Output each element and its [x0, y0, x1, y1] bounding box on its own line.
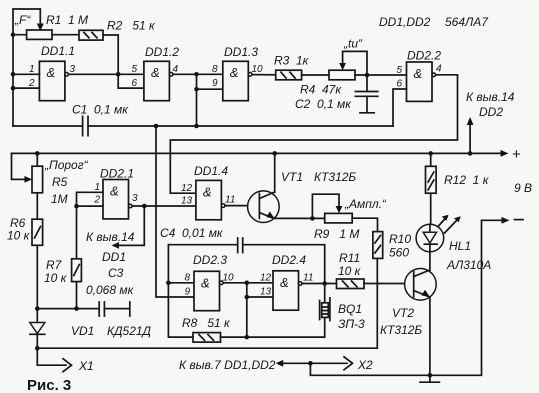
resistor R5 (potentiometer body): [32, 153, 43, 219]
wire DD2.1 inputs tied to R7: [74, 192, 103, 208]
node junction on left bus at pin2: [11, 86, 16, 91]
wire DD1.1 output to DD1.2 pin5: [69, 73, 144, 75]
pin number 11: [225, 195, 235, 206]
svg-text:DD1,DD2: DD1,DD2: [379, 15, 431, 29]
svg-text:&: &: [203, 185, 212, 200]
label tu: [343, 37, 363, 51]
label C2 0,1 mk: [295, 97, 352, 111]
svg-text:1М: 1М: [51, 192, 68, 206]
svg-text:R10: R10: [389, 232, 411, 246]
svg-text:DD1.1: DD1.1: [41, 44, 75, 58]
label +: [512, 146, 521, 163]
connector X2 arrow: [308, 357, 352, 370]
svg-text:9 В: 9 В: [514, 181, 532, 195]
svg-text:К выв.14: К выв.14: [86, 230, 135, 244]
ground bar under C2: [360, 112, 374, 114]
pin number 13: [260, 287, 272, 298]
op-amp gate DD1.2: [144, 61, 173, 100]
label R11 10k: [338, 251, 362, 278]
transistor VT1: [248, 191, 280, 223]
label R10 560: [389, 232, 411, 260]
label 9 V: [514, 181, 532, 195]
svg-text:КТ312Б: КТ312Б: [314, 170, 356, 184]
wire common bottom bus to R10: [35, 258, 377, 350]
wire to pin 14 DD1 arrow: [112, 206, 145, 249]
svg-text:3: 3: [70, 64, 76, 75]
label Ris. 3: [27, 377, 71, 393]
svg-text:4: 4: [173, 64, 179, 75]
svg-text:R5: R5: [52, 175, 68, 189]
wire DD2.2 output down and left to DD1.4 pin12: [170, 75, 457, 193]
svg-text:X2: X2: [357, 358, 373, 372]
svg-text:КТ312Б: КТ312Б: [380, 323, 422, 337]
svg-text:12: 12: [260, 273, 272, 284]
svg-text:&: &: [230, 65, 239, 80]
node junction on left bus at pin1: [11, 72, 16, 77]
svg-text:6: 6: [397, 79, 403, 90]
svg-text:R11: R11: [339, 251, 360, 265]
label R6 10k: [7, 216, 31, 243]
label R4 47k: [300, 83, 342, 97]
svg-text:6: 6: [132, 78, 138, 89]
svg-text:C1 0,1 мк: C1 0,1 мк: [72, 103, 129, 117]
label DD1.3: [224, 45, 258, 59]
wire DD1.4 output to VT1 base: [225, 205, 259, 207]
pin number 10: [223, 273, 235, 284]
label Ampl: [344, 197, 387, 211]
svg-text:R9 1 М: R9 1 М: [314, 227, 359, 241]
svg-text:VT2: VT2: [392, 306, 414, 320]
label R2 51k: [107, 19, 156, 33]
svg-text:DD1.2: DD1.2: [145, 45, 179, 59]
svg-text:R8 51 к: R8 51 к: [182, 316, 231, 330]
wire X2 net to minus terminal: [310, 217, 509, 375]
ground symbol: [420, 375, 439, 382]
svg-text:1: 1: [29, 64, 35, 75]
label AL310A: [446, 258, 491, 272]
resistor R11: [337, 279, 365, 289]
wire VT1 collector to +bus: [272, 151, 277, 192]
svg-text:DD2.4: DD2.4: [272, 253, 306, 267]
svg-text:VD1: VD1: [71, 324, 94, 338]
svg-text:11: 11: [303, 273, 313, 284]
wire VT1 emitter to R9: [274, 216, 325, 221]
pin number 1: [29, 64, 35, 75]
svg-text:10 к: 10 к: [338, 264, 362, 278]
label DD1,DD2 564LA7: [379, 15, 489, 29]
op-amp gate DD2.4: [273, 271, 302, 310]
label R8 51k: [182, 316, 231, 330]
svg-text:&: &: [201, 276, 210, 291]
svg-text:11: 11: [225, 195, 235, 206]
wire DD2.4 output to R11: [302, 281, 336, 286]
pin number 5: [397, 65, 403, 76]
svg-text:560: 560: [389, 246, 409, 260]
svg-text:564ЛА7: 564ЛА7: [445, 15, 489, 29]
pin number 2: [94, 195, 101, 206]
pin number 9: [212, 78, 218, 89]
svg-text:&: &: [414, 66, 423, 81]
connector X1 arrow: [37, 348, 71, 372]
wire node A horizontal: [35, 306, 99, 311]
label VT2 KT312B: [380, 306, 422, 337]
svg-text:BQ1: BQ1: [338, 302, 362, 316]
svg-text:DD1.3: DD1.3: [224, 45, 258, 59]
pin number 12: [260, 273, 272, 284]
capacitor C4 and feedback line: [168, 238, 324, 284]
resistor R2: [79, 30, 103, 40]
svg-text:5: 5: [132, 64, 138, 75]
LED emission arrows: [439, 215, 461, 233]
wire DD1.2 output to DD1.3 pin8: [173, 72, 223, 77]
wire R5 wiper feed with arrow: [12, 153, 33, 182]
pin number 8: [185, 273, 191, 284]
op-amp gate DD1.1: [39, 61, 68, 100]
pin number 9: [185, 287, 191, 298]
label Porog: [44, 158, 89, 172]
svg-text:DD2: DD2: [479, 105, 503, 119]
resistor R12: [426, 151, 437, 224]
resistor R10: [373, 232, 383, 259]
label R3 1k: [274, 54, 310, 68]
svg-text:2: 2: [94, 195, 101, 206]
piezo BQ1: [320, 284, 330, 338]
op-amp gate DD2.1: [103, 180, 132, 219]
label R12 1k: [444, 173, 490, 187]
svg-text:КД521Д: КД521Д: [107, 324, 152, 338]
label DD1.4: [194, 164, 228, 178]
svg-text:13: 13: [181, 196, 193, 207]
pin number 4: [436, 64, 442, 75]
transistor VT2: [405, 269, 437, 301]
svg-text:R7: R7: [46, 258, 63, 272]
svg-text:К выв.7 DD1,DD2: К выв.7 DD1,DD2: [179, 358, 276, 372]
svg-text:13: 13: [260, 287, 272, 298]
wire R6 to node A: [36, 245, 38, 308]
wire R9 to R10 top: [352, 218, 377, 231]
label R5 1M: [51, 175, 68, 206]
label R7 10k: [44, 258, 68, 285]
svg-text:9: 9: [185, 287, 191, 298]
svg-text:HL1: HL1: [449, 239, 471, 253]
svg-text:R12 1 к: R12 1 к: [444, 173, 490, 187]
label R1 1M: [46, 13, 88, 27]
svg-text:&: &: [47, 65, 56, 80]
svg-text:C4 0,01 мк: C4 0,01 мк: [160, 226, 224, 240]
resistor R7: [72, 206, 82, 309]
svg-text:DD2.3: DD2.3: [193, 253, 227, 267]
svg-text:DD2.1: DD2.1: [100, 167, 134, 181]
label VT1 KT312B: [281, 170, 356, 184]
capacitor C2: [355, 75, 378, 112]
wire VT2 emitter down to common: [429, 297, 431, 375]
svg-text:1: 1: [95, 182, 101, 193]
svg-text:9: 9: [212, 78, 218, 89]
wire DD2.1 output to DD1.4 pin13: [132, 204, 196, 209]
resistor R1 (potentiometer body): [13, 30, 79, 39]
wire +9V supply bus: [12, 150, 509, 157]
wire R3 to R4: [302, 74, 329, 76]
svg-text:X1: X1: [78, 359, 94, 373]
svg-text:8: 8: [185, 273, 191, 284]
op-amp gate DD1.4: [196, 180, 225, 219]
wire DD2.3 output to DD2.4 pin12: [223, 281, 273, 286]
wire Ampl bracket to R9 wiper: [312, 194, 342, 218]
wire R4 to DD2.2 pin5: [355, 73, 407, 78]
resistor R8: [193, 333, 221, 343]
svg-text:2: 2: [28, 78, 35, 89]
label R9 1M: [314, 227, 359, 241]
svg-text:„F“: „F“: [14, 13, 31, 27]
label "F": [14, 13, 31, 27]
label BQ1 ZP-3: [338, 302, 365, 331]
wire to pin 7 arrow: [276, 360, 311, 367]
svg-text:DD1.4: DD1.4: [194, 164, 228, 178]
svg-text:12: 12: [181, 183, 193, 194]
svg-text:10 к: 10 к: [44, 271, 68, 285]
svg-text:DD2.2: DD2.2: [407, 49, 441, 63]
pin number 3: [70, 64, 76, 75]
wire vertical from C1 bus to DD2.3 pin9: [154, 124, 194, 297]
resistor R3: [276, 70, 302, 80]
pin number 3: [132, 193, 138, 204]
label K vyv.14 DD2: [466, 90, 515, 119]
pin number 11: [303, 273, 313, 284]
wire left bus: [12, 35, 14, 126]
LED HL1: [416, 224, 444, 252]
node junction bus at R5: [35, 151, 40, 156]
label minus: [515, 219, 524, 221]
pin number 12: [181, 183, 193, 194]
wire R11 to VT2 base: [364, 283, 414, 285]
label HL1: [449, 239, 471, 253]
pin number 4: [173, 64, 179, 75]
svg-text:&: &: [110, 184, 119, 199]
diode VD1: [30, 309, 45, 349]
label DD2.4: [272, 253, 306, 267]
wire junction down to pin9 and C1 line: [194, 74, 223, 128]
svg-text:ЗП-3: ЗП-3: [338, 317, 365, 331]
label DD2.2: [407, 49, 441, 63]
op-amp gate DD2.2: [407, 62, 436, 101]
wire C4 left down to DD2.3 pin8 and R8: [166, 245, 194, 337]
pin number 6: [397, 79, 403, 90]
svg-text:&: &: [280, 275, 289, 290]
svg-text:10 к: 10 к: [7, 229, 31, 243]
pin number 2: [28, 78, 35, 89]
capacitor C3: [99, 302, 130, 316]
svg-text:8: 8: [212, 64, 218, 75]
label DD1.2: [145, 45, 179, 59]
svg-text:3: 3: [132, 193, 138, 204]
label DD1.1: [41, 44, 75, 58]
node junction VT2 emitter at common: [428, 373, 433, 378]
op-amp gate DD1.3: [223, 61, 252, 100]
label C4 0,01 mk: [160, 226, 224, 240]
resistor R4 (potentiometer body): [329, 70, 355, 80]
svg-text:C2 0,1 мк: C2 0,1 мк: [295, 97, 352, 111]
svg-text:10: 10: [223, 273, 235, 284]
wire DD1.3 output to R3: [252, 74, 276, 76]
wire F-adjust bracket with arrow to R1 wiper: [13, 9, 44, 35]
svg-text:DD1: DD1: [102, 250, 126, 264]
wire tu-adjust bracket arrow to R4 wiper: [339, 51, 367, 75]
svg-text:Рис. 3: Рис. 3: [27, 377, 71, 393]
pin number 1: [95, 182, 101, 193]
svg-text:К выв.14: К выв.14: [466, 90, 515, 104]
svg-text:5: 5: [397, 65, 403, 76]
svg-text:АЛ310А: АЛ310А: [446, 258, 491, 272]
label X1: [78, 359, 94, 373]
svg-text:R2 51 к: R2 51 к: [107, 19, 156, 33]
label VD1 KD521D: [71, 324, 152, 338]
node junction on left bus at R1: [11, 32, 16, 37]
label DD2.3: [193, 253, 227, 267]
label C1 0,1 mk: [72, 103, 129, 117]
wire R8 to BQ1 bottom: [221, 336, 325, 338]
svg-text:C3: C3: [108, 266, 124, 280]
wire DD1.1 input pins: [13, 74, 39, 88]
label K vyv.7 DD1,DD2: [179, 358, 276, 372]
svg-text:10: 10: [252, 64, 264, 75]
label C3 0,068 mk: [86, 266, 135, 297]
pin number 10: [252, 64, 264, 75]
label DD2.1: [100, 167, 134, 181]
op-amp gate DD2.3: [194, 271, 223, 310]
wire DD2.4 pin13 tie down to R8 bus: [245, 283, 274, 340]
svg-text:„Ампл.“: „Ампл.“: [344, 197, 387, 211]
capacitor C1: [13, 116, 197, 135]
wire DD2.2 pin6 from C1 bus: [393, 89, 407, 126]
svg-text:&: &: [151, 65, 160, 80]
wire VT2 collector to LED: [429, 252, 431, 270]
svg-text:R1 1 М: R1 1 М: [46, 13, 88, 27]
pin number 6: [132, 78, 138, 89]
wire to pin 14 DD2 arrow: [467, 117, 474, 156]
resistor R6: [32, 219, 43, 245]
svg-text:VT1: VT1: [281, 170, 303, 184]
pin number 13: [181, 196, 193, 207]
svg-text:R3 1к: R3 1к: [274, 54, 310, 68]
svg-text:+: +: [512, 146, 521, 163]
svg-text:0,068 мк: 0,068 мк: [86, 283, 135, 297]
svg-text:R4 47к: R4 47к: [300, 83, 342, 97]
label X2: [357, 358, 373, 372]
label K vyv.14 DD1: [86, 230, 135, 264]
wire R2 to DD1.2 inputs: [103, 35, 144, 88]
svg-text:„Порог“: „Порог“: [44, 158, 89, 172]
pin number 8: [212, 64, 218, 75]
svg-text:4: 4: [436, 64, 442, 75]
pin number 5: [132, 64, 138, 75]
svg-text:„tи“: „tи“: [343, 37, 363, 51]
wire C1 bus to DD2.2 pin6 corner: [197, 125, 394, 127]
resistor R9 (potentiometer body): [325, 213, 353, 223]
